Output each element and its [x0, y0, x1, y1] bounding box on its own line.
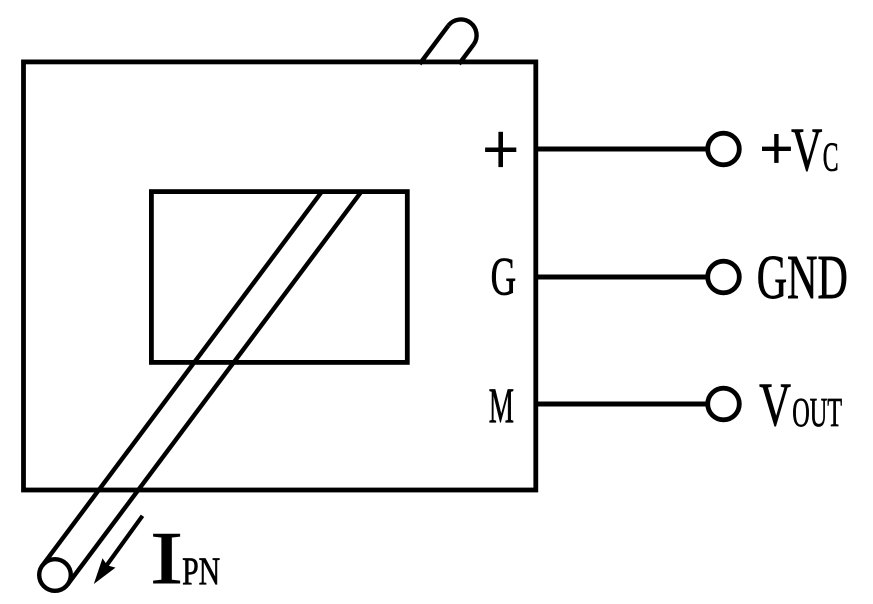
svg-text:GND: GND [757, 244, 848, 312]
sensor body outer rectangle [24, 62, 536, 490]
primary conductor rounded cap [448, 19, 476, 44]
primary conductor tube upper-right edge [459, 44, 474, 64]
svg-text:PN: PN [182, 549, 220, 593]
terminal circle Vout [708, 388, 740, 420]
pin label + (plus) vertical bar [498, 132, 503, 167]
label +Vc plus vertical bar [774, 134, 778, 163]
wire GND [536, 275, 708, 280]
wire +Vc [536, 147, 708, 152]
current direction arrow shaft [104, 516, 143, 569]
pin label + (plus) horizontal bar [485, 147, 516, 152]
primary conductor end cross-section circle [39, 559, 71, 591]
svg-text:V: V [759, 371, 791, 439]
aperture window inner rectangle [151, 192, 407, 363]
svg-text:I: I [150, 518, 183, 600]
primary conductor tube lower-left edge [42, 192, 322, 566]
svg-text:G: G [491, 247, 516, 307]
label +Vc plus horizontal bar [762, 147, 791, 151]
terminal circle +Vc [708, 133, 740, 165]
primary conductor tube lower-right edge [68, 192, 362, 585]
svg-text:V: V [791, 116, 822, 184]
wire Vout [536, 402, 708, 407]
svg-text:C: C [823, 134, 839, 180]
svg-text:M: M [489, 377, 514, 433]
terminal circle GND [708, 261, 740, 293]
svg-text:OUT: OUT [792, 390, 842, 435]
current direction arrowhead [94, 558, 116, 584]
primary conductor tube upper-left edge [420, 26, 449, 64]
